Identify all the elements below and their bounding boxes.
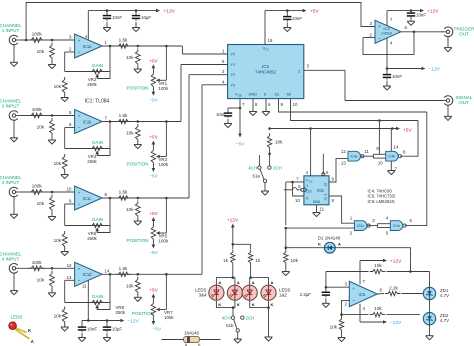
label K LED1	[252, 302, 255, 307]
resistor 100k channel 4 input	[28, 260, 45, 271]
label GAIN channel 2	[92, 140, 103, 145]
svg-text:−5V: −5V	[149, 250, 158, 255]
svg-text:+: +	[78, 39, 81, 44]
IC5 pin 4 Vcc	[306, 129, 311, 176]
svg-text:K: K	[218, 302, 221, 307]
label +5V channel 2 position	[149, 135, 158, 140]
wire channel 1 to multiplexer Y0	[182, 46, 227, 54]
resistor 10k IC1d feedback to ground	[54, 307, 68, 325]
node channel 1 position wiper	[165, 45, 168, 48]
supply -5V arrow channel 1	[152, 88, 156, 96]
svg-text:10k: 10k	[37, 201, 45, 206]
wire zener column	[429, 272, 431, 288]
IC4c output pin 3	[368, 218, 378, 226]
wire channel 3 input	[21, 191, 75, 193]
capacitor 10nF mux Vcc	[283, 9, 302, 21]
ground below channel 1 output 10k	[134, 66, 142, 73]
label LEDS legend	[10, 315, 22, 320]
svg-text:GND: GND	[313, 200, 321, 204]
label -5V channel 3 position	[149, 250, 158, 255]
svg-text:1.5k: 1.5k	[119, 266, 128, 271]
svg-text:10k: 10k	[330, 325, 338, 330]
resistor 10k IC6 bottom feedback	[342, 306, 421, 317]
svg-text:14: 14	[393, 144, 398, 149]
svg-text:EE: EE	[238, 94, 242, 98]
svg-text:2CH: 2CH	[246, 315, 255, 320]
pin 7 label	[105, 116, 108, 121]
node channel 4 position wiper	[165, 273, 168, 276]
svg-text:4.7V: 4.7V	[440, 293, 449, 298]
svg-text:+5V: +5V	[310, 9, 319, 15]
svg-text:−: −	[78, 51, 81, 56]
label -5V channel 2 position	[149, 174, 158, 179]
svg-text:2 INPUT: 2 INPUT	[2, 104, 20, 109]
svg-text:3&4: 3&4	[199, 293, 207, 298]
channel 3 BNC ground	[10, 196, 18, 218]
wire channel 3 output	[102, 197, 189, 199]
svg-text:10nF: 10nF	[416, 13, 426, 18]
ground below LEDs 1&2 cathode	[265, 333, 273, 342]
label GAIN channel 4	[92, 294, 103, 299]
capacitor 10nF top rail	[103, 9, 123, 21]
position pot wiper channel 3	[156, 198, 167, 235]
svg-text:+12V: +12V	[427, 9, 439, 15]
svg-text:1&2: 1&2	[279, 293, 287, 298]
wire IC3 output to trigger out	[401, 25, 443, 32]
wire IC4c to IC4d tied stubs	[378, 224, 391, 228]
svg-text:250k: 250k	[87, 159, 97, 164]
ground below IC3 -12V cap	[383, 81, 391, 91]
multiplexer IC2 74HC4052	[228, 45, 304, 99]
svg-text:+5V: +5V	[403, 128, 412, 134]
svg-text:IC4a: IC4a	[351, 155, 358, 159]
pin 6 label	[69, 122, 72, 127]
node mux Vee decoupling	[239, 107, 242, 110]
supply -5V arrow channel 4	[152, 318, 156, 326]
node channel 2 position wiper	[165, 120, 168, 123]
resistor 10k IC6 inverting to ground	[330, 315, 344, 333]
wire LED anode rail 1&2	[249, 276, 268, 284]
ground below 2.2uF	[322, 298, 330, 307]
wire -12V rail bottom	[82, 320, 120, 322]
wire IC5 pin 6 riser	[322, 154, 324, 174]
supply +5V arrow mux	[303, 9, 320, 15]
mux pin 3 Z output	[304, 64, 345, 71]
svg-text:13: 13	[67, 275, 72, 280]
svg-text:10nF: 10nF	[216, 112, 226, 117]
node channel 2 input divider	[51, 114, 54, 117]
wire LED cathode rail 3&4	[216, 301, 235, 316]
label +5V channel 1 position	[149, 58, 158, 63]
svg-text:16: 16	[268, 38, 273, 43]
svg-text:+5V: +5V	[149, 211, 158, 216]
wire channel 4 output	[102, 273, 202, 275]
svg-text:10k: 10k	[275, 140, 283, 145]
potentiometer VR1 100k position	[151, 72, 155, 89]
supply +12V arrow top rail	[156, 9, 176, 15]
svg-text:250k: 250k	[87, 82, 97, 87]
capacitor 10nF mux Vee	[216, 108, 240, 118]
label LEDS 1&2	[279, 288, 291, 298]
IC4d pin 4 label	[386, 215, 389, 220]
svg-text:10µF: 10µF	[112, 327, 122, 332]
supply +5V arrow channel 4	[152, 294, 156, 302]
svg-text:10k: 10k	[54, 238, 62, 243]
IC4b pin 14 +5V	[391, 129, 398, 152]
switch S1b contact 4CH	[222, 315, 235, 320]
wire IC6 +12V	[360, 260, 383, 262]
wire IC4b pin 9 to S0 line	[378, 119, 381, 154]
svg-text:+: +	[78, 115, 81, 120]
mux pin 6 E	[266, 99, 271, 110]
mux pin 4 label	[222, 79, 225, 84]
legend LED symbol	[9, 322, 34, 344]
label POSITION channel 1	[127, 85, 149, 90]
label POSITION channel 3	[127, 238, 149, 243]
ground below channel 3 output 10k	[134, 218, 142, 225]
svg-text:IC4b: IC4b	[388, 155, 395, 159]
svg-text:−: −	[78, 280, 81, 285]
svg-text:K: K	[252, 302, 255, 307]
svg-text:1k: 1k	[223, 258, 229, 263]
IC6 output wire	[377, 288, 384, 295]
wire LED anode rail 3&4	[216, 276, 235, 284]
capacitor 2.2uF IC6	[300, 287, 330, 297]
svg-text:13: 13	[341, 161, 346, 166]
wire D1 anode to comparator	[335, 248, 412, 273]
position pot wiper channel 1	[156, 46, 167, 82]
signal out BNC ground	[444, 105, 452, 121]
op-amp IC3 LM318	[375, 20, 401, 43]
svg-text:LEDS: LEDS	[10, 315, 22, 320]
svg-text:−12V: −12V	[429, 67, 441, 73]
IC6 pin 3 wire	[325, 282, 350, 289]
svg-text:74HC4052: 74HC4052	[255, 69, 277, 74]
svg-text:POSITION: POSITION	[127, 238, 149, 243]
capacitor 10nF IC3 -12V	[383, 69, 403, 80]
wire channel 4 to multiplexer Y3	[202, 85, 228, 274]
label A LED4	[237, 280, 240, 285]
svg-text:2.2k: 2.2k	[389, 285, 398, 290]
wire IC3 +12V rail	[387, 10, 420, 12]
potentiometer VR7 100k position	[151, 301, 155, 318]
switch S1b pole	[226, 319, 240, 332]
ground below channel 2 10k	[48, 136, 56, 145]
node channel 1 input divider	[51, 39, 54, 42]
IC4a pin 12 label	[341, 149, 346, 154]
svg-text:12: 12	[341, 149, 346, 154]
connector channel 1 input (BNC)	[0, 23, 22, 45]
svg-text:10: 10	[293, 102, 298, 107]
mux pin 1 label	[222, 49, 225, 54]
nand gate IC4b	[386, 151, 402, 161]
ground below channel 4 10k	[48, 288, 56, 297]
supply -5V arrow channel 2	[152, 165, 156, 173]
svg-text:−12V: −12V	[390, 320, 402, 326]
resistor 1k LEDs 1&2	[248, 244, 261, 277]
node +5V rail IC5 Vcc	[309, 127, 312, 130]
nand gate IC4a	[348, 151, 364, 161]
svg-text:10nF: 10nF	[392, 74, 402, 79]
svg-text:+5V: +5V	[149, 288, 158, 293]
supply +5V arrow channel 2	[152, 141, 156, 149]
svg-text:Y3: Y3	[231, 83, 236, 87]
ground below channel 3 10k	[48, 212, 56, 221]
svg-text:+12V: +12V	[164, 9, 176, 15]
svg-text:3 INPUT: 3 INPUT	[2, 180, 20, 185]
ground below feedback 10k channel 1	[61, 95, 69, 102]
svg-text:10k: 10k	[126, 283, 134, 288]
svg-text:1.5k: 1.5k	[119, 190, 128, 195]
label IC4 IC5 IC6 parts	[368, 189, 396, 204]
gain pot wiper channel 4	[95, 303, 110, 310]
svg-text:11: 11	[82, 284, 87, 289]
wire IC4a to IC4b tied stubs	[374, 154, 386, 158]
connector trigger out (BNC)	[441, 26, 474, 36]
svg-text:1k: 1k	[255, 258, 261, 263]
IC5 pin 11 GND	[317, 205, 325, 212]
ground below feedback 10k channel 3	[61, 249, 69, 256]
wire IC6 pin 3 to feedback	[326, 272, 369, 288]
svg-text:Q: Q	[324, 182, 327, 186]
resistor 10k IC1a feedback to ground	[54, 77, 68, 95]
gain pot wiper channel 1	[95, 72, 110, 79]
supply -12V arrow IC6	[383, 320, 402, 326]
svg-text:4 INPUT: 4 INPUT	[2, 256, 20, 261]
svg-text:POSITION: POSITION	[127, 162, 149, 167]
zener ZD1 4.7V	[423, 287, 449, 299]
resistor 10k channel 4 to ground	[37, 271, 55, 289]
diode D1 1N4148	[318, 236, 341, 254]
capacitor 10nF IC3 +12V	[407, 9, 427, 17]
supply +5V arrow logic	[396, 127, 412, 134]
svg-text:10k: 10k	[37, 277, 45, 282]
svg-text:250k: 250k	[116, 310, 126, 315]
wire IC1c inverting input feedback	[65, 197, 112, 226]
svg-text:OUT: OUT	[459, 100, 469, 105]
pin 9 label	[69, 199, 72, 204]
wire IC1a pin 4 to +12V rail	[85, 11, 88, 41]
svg-text:IC1a: IC1a	[83, 44, 93, 49]
svg-text:S1a: S1a	[252, 173, 260, 178]
resistor 1.5k channel 4	[116, 266, 132, 277]
resistor 1k LEDs 3&4	[223, 244, 235, 277]
svg-text:+: +	[78, 191, 81, 196]
gain pot wiper channel 2	[95, 149, 110, 156]
svg-text:D1 1N4148: D1 1N4148	[318, 236, 341, 241]
potentiometer VR8 250k gain	[89, 300, 105, 304]
svg-text:100k: 100k	[159, 162, 169, 167]
IC6 pin 4 -12V	[360, 304, 366, 322]
label K LED4	[237, 302, 240, 307]
pin 5 label	[69, 110, 72, 115]
label POSITION channel 4	[132, 311, 154, 316]
ground below channel 4 output 10k	[134, 294, 142, 301]
svg-text:POSITION: POSITION	[127, 85, 149, 90]
channel 2 BNC ground	[10, 120, 18, 142]
position pot wiper channel 2	[156, 122, 167, 159]
potentiometer VR6 250k gain	[89, 223, 105, 227]
IC4b pin 7 ground	[391, 161, 397, 172]
svg-text:10k: 10k	[37, 49, 45, 54]
svg-text:A: A	[271, 280, 274, 285]
svg-text:250k: 250k	[87, 236, 97, 241]
wire channel 2 input	[21, 115, 75, 117]
svg-text:100k: 100k	[159, 86, 169, 91]
svg-text:K: K	[318, 242, 321, 247]
supply -5V arrow channel 3	[152, 241, 156, 249]
wire IC1d inverting input feedback	[65, 273, 112, 303]
pin 3 label	[69, 35, 72, 40]
svg-text:+: +	[378, 25, 381, 30]
svg-text:J: J	[306, 184, 308, 188]
svg-text:10k: 10k	[54, 161, 62, 166]
IC4d pin 5 label	[386, 231, 389, 236]
node channel 2 after 1.5k	[137, 120, 140, 123]
node D1 cathode	[285, 246, 288, 249]
label POSITION channel 2	[127, 162, 149, 167]
IC5 pin 8 Qbar	[329, 196, 354, 223]
resistor 10k channel 3 to ground	[37, 195, 55, 213]
wire +5V logic rail	[270, 128, 396, 130]
ground mux pin 8	[249, 110, 257, 116]
wire +12V rail top	[88, 10, 156, 12]
connector signal out (BNC)	[441, 95, 473, 105]
svg-text:100k: 100k	[32, 107, 43, 112]
label VR1 100k	[159, 81, 169, 91]
svg-text:IC2: IC2	[262, 64, 270, 69]
svg-text:−: −	[78, 127, 81, 132]
ground below channel 2 output 10k	[134, 142, 142, 149]
label LEDS 3&4	[195, 288, 207, 298]
label +5V channel 3 position	[149, 211, 158, 216]
node channel 3 after 1.5k	[137, 197, 140, 200]
capacitor 10nF bottom rail	[78, 321, 98, 333]
label A LED1	[252, 280, 255, 285]
supply -5V arrow mux Vee	[236, 134, 245, 148]
wire IC3 inverting input	[363, 37, 375, 39]
pin 2 label	[69, 47, 72, 52]
LED LED3	[209, 285, 224, 300]
pin 13 label	[67, 275, 72, 280]
IC4a output pin 11	[361, 149, 373, 156]
svg-text:10nF: 10nF	[292, 16, 302, 21]
svg-text:−: −	[378, 37, 381, 42]
node +5V rail IC4b pin 14	[391, 127, 394, 130]
svg-text:K: K	[271, 302, 274, 307]
LED LED2	[261, 285, 276, 300]
IC3 pin 7 +12V	[387, 11, 393, 26]
wire between zeners	[429, 300, 431, 313]
svg-text:IC1: TL084: IC1: TL084	[85, 99, 110, 105]
svg-text:+12V: +12V	[227, 218, 239, 224]
node channel 1 after 1.5k	[137, 45, 140, 48]
resistor 1.5k channel 3	[116, 190, 132, 201]
svg-text:−: −	[352, 299, 355, 304]
label A LED2	[271, 280, 274, 285]
label K LED2	[271, 302, 274, 307]
svg-text:+12V: +12V	[390, 259, 402, 265]
svg-text:4CH: 4CH	[222, 315, 231, 320]
svg-text:IC3: IC3	[383, 26, 390, 31]
resistor 10k select pull-up	[267, 127, 283, 150]
resistor 10k channel 1 to ground	[37, 43, 55, 61]
resistor 10k IC1c feedback to ground	[54, 231, 68, 249]
svg-text:+5V: +5V	[149, 58, 158, 63]
supply +12V arrow IC3	[420, 9, 439, 15]
svg-text:1 INPUT: 1 INPUT	[2, 28, 20, 33]
pin 12 label	[67, 263, 72, 268]
svg-text:4CH: 4CH	[248, 165, 257, 170]
mux pin 5 label	[222, 59, 225, 64]
IC4b output pin 8 wire	[400, 121, 418, 157]
resistor 100k channel 3 input	[28, 184, 45, 195]
resistor 10k IC6 top feedback	[370, 263, 386, 274]
node channel 4 input divider	[51, 267, 54, 270]
ground below 10uF top rail	[132, 22, 140, 32]
wire D1 cathode	[286, 247, 325, 249]
resistor 1.5k channel 1	[116, 38, 132, 49]
wire S1b pole to ground	[237, 332, 239, 338]
svg-text:−5V: −5V	[149, 174, 158, 179]
ground below feedback 10k channel 2	[61, 172, 69, 179]
IC3 pin 2 label	[370, 32, 373, 37]
op-amp IC6 LM6361	[349, 281, 377, 307]
resistor 100k channel 1 input	[28, 32, 45, 43]
mux pin 7 Vee	[240, 99, 245, 134]
wire channel 2 to multiplexer Y1	[181, 65, 228, 122]
diode D2 1N4148	[162, 331, 221, 346]
mux pin 16 Vcc	[265, 11, 273, 45]
wire IC1d pin 11 to -12V rail	[82, 280, 90, 322]
svg-text:A: A	[338, 242, 341, 247]
IC4b pin 10 label	[378, 161, 383, 166]
pin 8 label	[105, 192, 108, 197]
node channel 3 position wiper	[165, 197, 168, 200]
IC4b pin 9 label	[376, 146, 379, 151]
svg-text:GND: GND	[249, 93, 258, 97]
op-amp IC1d	[75, 262, 103, 286]
potentiometer VR4 250k gain	[89, 146, 105, 150]
svg-text:A: A	[237, 280, 240, 285]
IC5 pin 6 set	[322, 170, 329, 176]
IC3 pin 3 label	[370, 21, 373, 26]
svg-text:10µF: 10µF	[141, 15, 151, 20]
wire LED cathode rail 1&2	[250, 301, 270, 333]
ground below IC6 10k	[338, 332, 346, 342]
LED LED1	[242, 285, 257, 300]
svg-text:10: 10	[295, 198, 300, 203]
wire mux Z to signal out	[345, 70, 443, 100]
label +5V channel 4 position	[149, 288, 158, 293]
wire channel 1 input to IC3 non-inverting input	[26, 3, 375, 41]
zener ZD2 4.7V	[423, 312, 449, 324]
label VR8 250k	[116, 305, 126, 315]
label VR3 100k	[159, 157, 169, 167]
svg-text:10k: 10k	[291, 258, 299, 263]
wire mux +5V	[265, 10, 303, 12]
supply +12V arrow LEDs	[227, 218, 239, 245]
resistor 100k channel 2 input	[28, 107, 45, 118]
svg-text:1.5k: 1.5k	[119, 38, 128, 43]
svg-text:1N4148: 1N4148	[184, 331, 199, 336]
svg-text:Y0: Y0	[231, 53, 236, 57]
svg-text:IC1b: IC1b	[83, 119, 93, 124]
trigger out BNC ground	[444, 36, 452, 52]
wire channel 1 output	[102, 45, 182, 47]
svg-text:10k: 10k	[374, 263, 382, 268]
connector channel 3 input (BNC)	[0, 175, 22, 197]
